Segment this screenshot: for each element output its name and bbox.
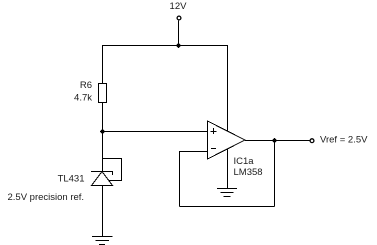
- svg-text:IC1a: IC1a: [234, 156, 255, 167]
- svg-text:2.5V precision ref.: 2.5V precision ref.: [8, 192, 85, 203]
- svg-text:R6: R6: [80, 80, 92, 91]
- svg-text:12V: 12V: [170, 1, 188, 12]
- svg-text:LM358: LM358: [234, 167, 263, 178]
- svg-text:4.7k: 4.7k: [74, 93, 92, 104]
- svg-text:Vref = 2.5V: Vref = 2.5V: [320, 135, 368, 146]
- svg-text:TL431: TL431: [58, 174, 85, 185]
